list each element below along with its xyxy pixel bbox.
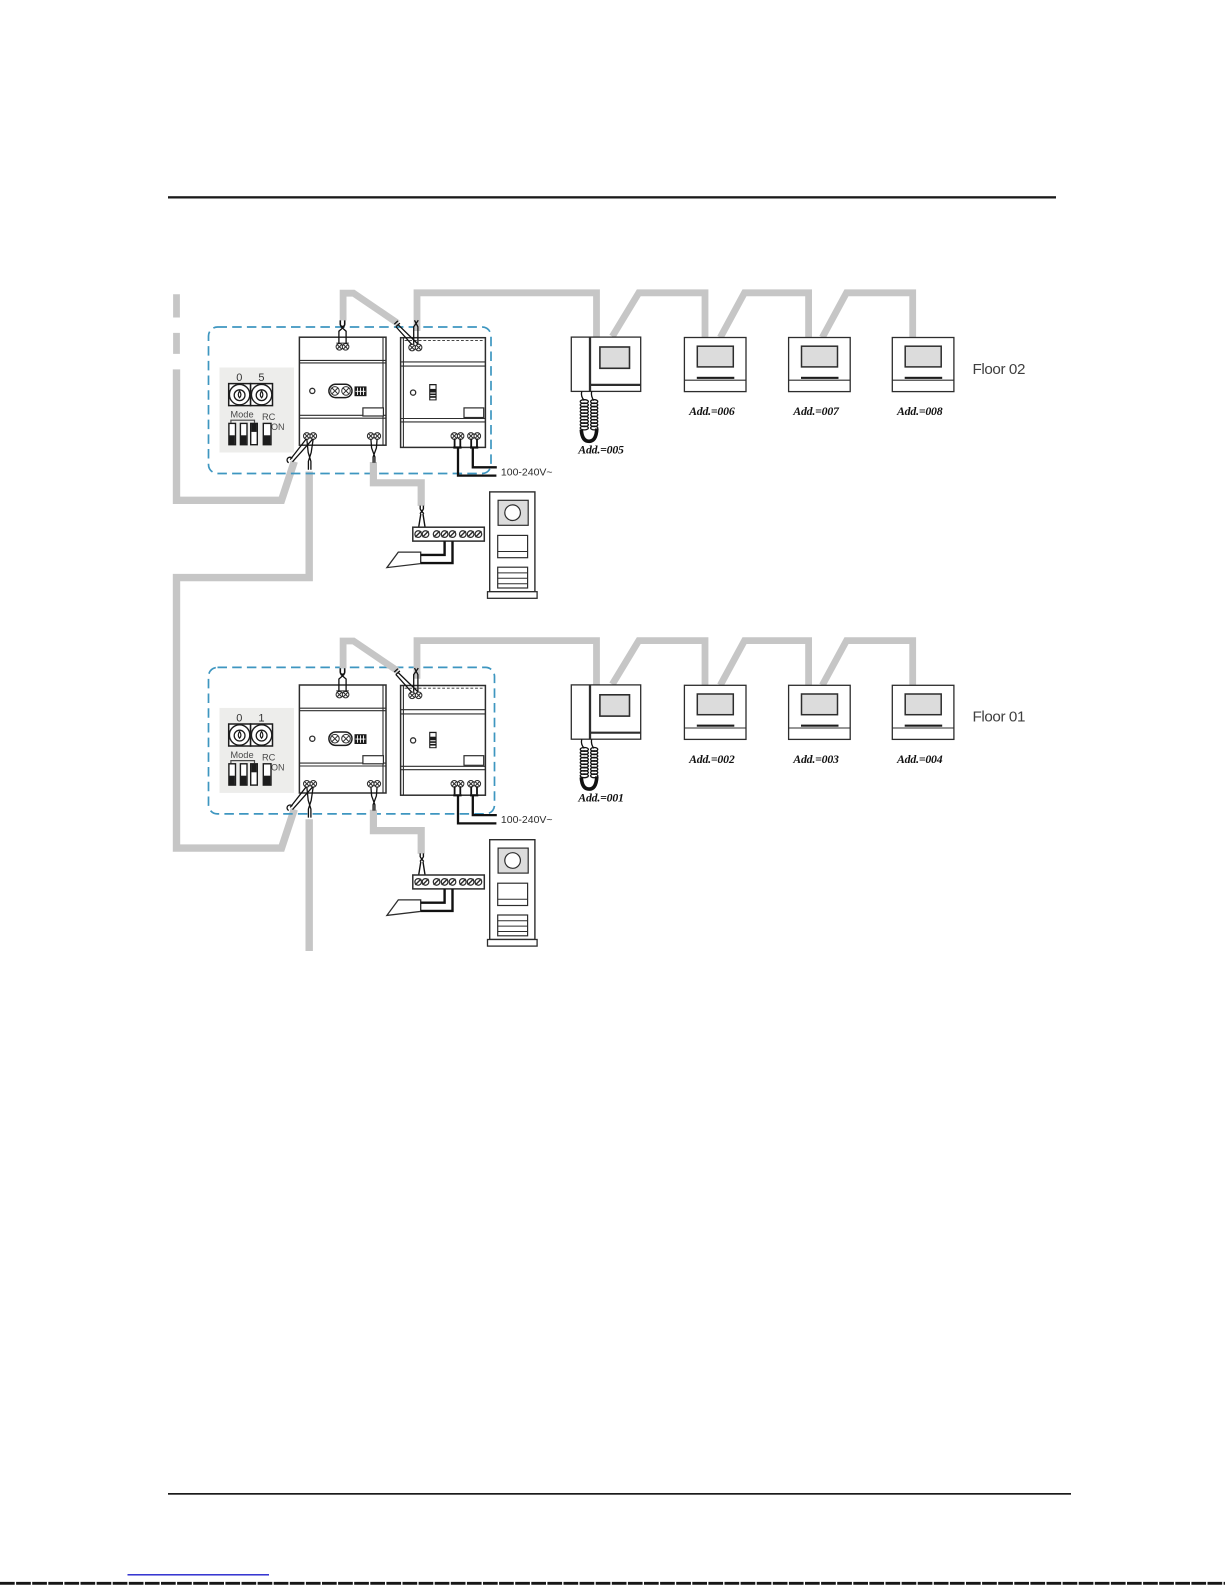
Floor 02: lock wire 1 <box>421 541 445 555</box>
Floor 01: rotary address switch 2 <box>251 724 273 746</box>
monitor Add.=001 handset coiled cord <box>580 739 598 789</box>
svg-text:100-240V~: 100-240V~ <box>501 814 553 826</box>
riser continuation dashes (gray) <box>173 294 180 354</box>
Floor 01: flat indoor monitor (Add.=003) <box>789 685 851 739</box>
Floor 01: flat indoor monitor (Add.=002) <box>684 685 746 739</box>
Floor 02: electric lock <box>387 552 421 568</box>
svg-text:5: 5 <box>258 372 264 384</box>
Floor 02: bus wire segment monitor2-monitor3 (gray) <box>720 293 808 340</box>
Floor 02: indoor monitor with handset (Add.=005) <box>571 337 640 441</box>
Floor 02: flat indoor monitor (Add.=008) <box>892 338 954 392</box>
svg-text:RC: RC <box>262 412 276 422</box>
Floor 02: crossing wires into controller top terminals <box>414 320 419 344</box>
Floor 02: wire pair power supply top terminals to gray wire <box>340 320 344 326</box>
Floor 01: wire power supply to controller (gray) <box>343 641 398 671</box>
svg-text:Add.=008: Add.=008 <box>896 404 943 418</box>
svg-text:Add.=003: Add.=003 <box>792 752 839 766</box>
Floor 02: RC ON labels <box>262 412 285 432</box>
indoor audio monitor Add.=001 body <box>571 685 640 739</box>
Floor 01: door station panel <box>488 840 538 946</box>
Floor 01: electric lock <box>387 900 421 916</box>
Floor 02: bus wire from controller to monitors (gray) <box>417 293 597 339</box>
Floor 01: mains wires from controller (100-240V) <box>455 786 477 794</box>
Floor 01: wire pair power supply bottom-left to down riser <box>307 787 313 818</box>
Floor 02: Mode DIP switch 1 <box>229 423 236 444</box>
Floor 02: door station panel <box>488 492 538 598</box>
Floor 01: bus wire from controller to monitors (gray) <box>417 641 597 687</box>
indoor audio monitor Add.=005 body <box>571 337 640 391</box>
svg-text:1: 1 <box>258 712 264 724</box>
Floor 02: wire pair into door terminal strip <box>418 506 425 531</box>
Floor 01: bus wire segment monitor2-monitor3 (gray) <box>720 641 808 688</box>
svg-text:Add.=002: Add.=002 <box>688 752 735 766</box>
Floor 01: power supply module <box>299 685 386 793</box>
svg-text:ON: ON <box>271 422 285 432</box>
svg-text:Mode: Mode <box>230 409 253 419</box>
riser stub below floor 01 (gray) <box>306 819 313 951</box>
Floor 02: address switch panel <box>220 368 295 453</box>
svg-text:Add.=006: Add.=006 <box>688 404 735 418</box>
Floor 01: crossing wires into controller top terminals <box>414 668 419 692</box>
Floor 02: Mode label and bracket <box>230 409 254 422</box>
Floor 02: power supply module <box>299 337 386 445</box>
Floor 01: RC DIP switch <box>263 764 271 785</box>
svg-text:ON: ON <box>271 762 285 772</box>
page bottom dashed border <box>0 1582 1225 1585</box>
Floor 02: wire pair power supply bottom-left to riser feed <box>290 439 313 462</box>
Floor 02: wire power supply to controller (gray) <box>343 293 398 323</box>
Floor 02: wire pair power supply bottom-left to down riser <box>307 439 313 470</box>
Floor 01: bus wire segment monitor1-monitor2 (gray) <box>612 641 705 688</box>
Floor 01: bus controller module <box>401 686 486 796</box>
Floor 01: Mode DIP switch 1 <box>229 764 236 785</box>
Floor 01: wire power supply to door station (gray) <box>373 810 421 854</box>
Floor 02: rotary address switch 1 <box>229 384 251 406</box>
Floor 01: hook at riser feed wire end <box>287 805 292 811</box>
bottom rule <box>168 1493 1071 1495</box>
Floor 01: indoor monitor with handset (Add.=001) <box>571 685 640 789</box>
svg-text:Add.=005: Add.=005 <box>577 443 624 457</box>
riser wire feeding floor 02 power supply (gray) <box>177 369 295 500</box>
Floor 02: wire power supply to door station (gray) <box>373 462 421 506</box>
Floor 01: lock wire 2 <box>421 889 453 911</box>
Floor 01: Mode DIP switch 3 (up) <box>251 764 258 785</box>
Floor 02: dashed enclosure box <box>209 327 492 474</box>
Floor 01: wire pair power supply top terminals to gray wire <box>340 668 344 674</box>
Floor 02: bus wire segment monitor1-monitor2 (gray) <box>612 293 705 340</box>
Floor 02: bus controller module <box>401 338 486 448</box>
monitor Add.=005 screen <box>600 347 630 368</box>
riser wire from floor 02 down to floor 01 (gray) <box>177 472 310 849</box>
footer link underline <box>128 1574 270 1575</box>
Floor 01: address switch panel <box>220 708 295 793</box>
Floor 02: bus wire segment monitor3-monitor4 (gray) <box>822 293 912 340</box>
svg-text:RC: RC <box>262 752 276 762</box>
Floor 01: RC ON labels <box>262 752 285 772</box>
Floor 02: flat indoor monitor (Add.=006) <box>684 338 746 392</box>
Floor 02: rotary address switch 2 <box>251 384 273 406</box>
Floor 02: mains wires from controller (100-240V) <box>455 439 477 447</box>
Floor 02: RC DIP switch <box>263 423 271 444</box>
top rule <box>168 196 1056 198</box>
Floor 01: dashed enclosure box <box>209 667 495 814</box>
Floor 01: bus wire segment monitor3-monitor4 (gray) <box>822 641 912 688</box>
Floor 01: flat indoor monitor (Add.=004) <box>892 685 954 739</box>
monitor Add.=001 screen <box>600 695 630 716</box>
Floor 01: wire pair power supply bottom-left to riser feed <box>290 787 313 810</box>
Floor 02: flat indoor monitor (Add.=007) <box>789 338 851 392</box>
Floor 01: wire pair power supply bottom-right to door wire <box>371 787 377 811</box>
Floor 02: Mode DIP switch 3 (up) <box>251 423 258 444</box>
svg-text:Add.=001: Add.=001 <box>577 790 623 804</box>
Floor 01: lock wire 1 <box>421 889 445 903</box>
svg-text:Mode: Mode <box>230 750 253 760</box>
Floor 02: Mode DIP switch 2 <box>240 423 247 444</box>
Floor 02: wire pair power supply bottom-right to door wire <box>371 439 377 463</box>
Floor 01: Mode label and bracket <box>230 750 254 763</box>
svg-text:Add.=007: Add.=007 <box>792 404 840 418</box>
Floor 02: lock wire 2 <box>421 541 453 563</box>
Floor 02: door station terminal strip <box>413 527 485 541</box>
svg-text:100-240V~: 100-240V~ <box>501 466 553 478</box>
Floor 02: hook at riser feed wire end <box>287 457 292 463</box>
svg-text:0: 0 <box>236 372 242 384</box>
monitor Add.=005 handset coiled cord <box>580 391 598 441</box>
svg-text:Add.=004: Add.=004 <box>896 752 943 766</box>
svg-text:0: 0 <box>236 712 242 724</box>
svg-text:Floor 01: Floor 01 <box>973 709 1026 726</box>
Floor 01: wire pair into door terminal strip <box>418 853 425 878</box>
Floor 01: door station terminal strip <box>413 875 485 889</box>
svg-text:Floor 02: Floor 02 <box>973 361 1026 378</box>
Floor 01: Mode DIP switch 2 <box>240 764 247 785</box>
Floor 01: rotary address switch 1 <box>229 724 251 746</box>
